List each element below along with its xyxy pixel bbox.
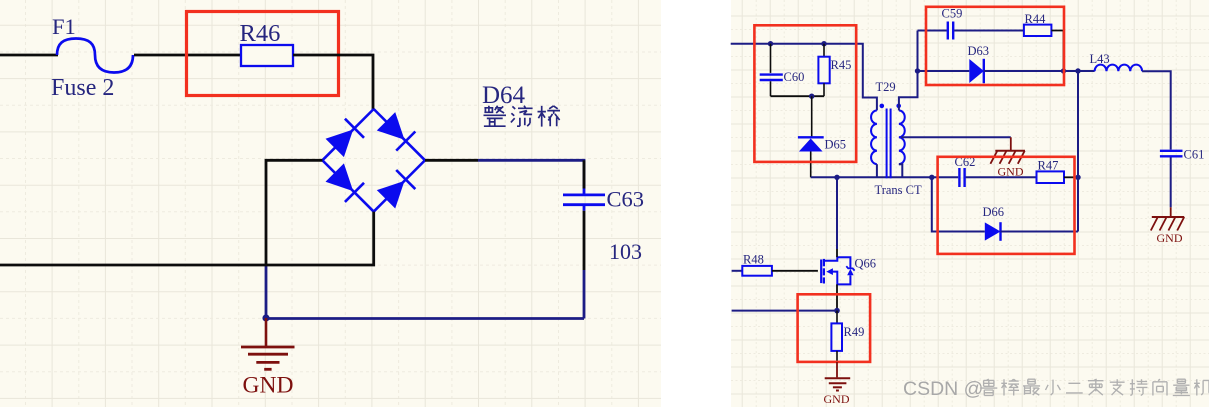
fuse F1 — [57, 39, 133, 73]
svg-text:T29: T29 — [876, 80, 896, 94]
junction node source R49 — [834, 308, 840, 314]
inductor L43 — [1095, 65, 1143, 72]
capacitor C59 — [947, 22, 949, 40]
wire node to D63 — [918, 70, 970, 72]
wire C60 bottom to R45 bottom — [771, 95, 825, 97]
wire source — [836, 284, 838, 310]
svg-text:C59: C59 — [942, 7, 963, 21]
wire secondary top pin to D63 node — [899, 31, 918, 111]
earth ground at center tap — [1010, 137, 1012, 151]
junction node secondary bottom — [929, 175, 934, 180]
highlight box around R49 — [798, 294, 871, 362]
wire D66 to output vertical — [1001, 231, 1079, 233]
capacitor C63 — [583, 189, 586, 195]
svg-text:Fuse 2: Fuse 2 — [51, 75, 114, 101]
diode D63 — [969, 59, 984, 83]
svg-text:R48: R48 — [743, 253, 764, 267]
wire output vertical — [1077, 71, 1079, 232]
capacitor C61 — [1160, 150, 1183, 152]
junction node R47 output — [1075, 175, 1080, 180]
svg-text:Q66: Q66 — [855, 257, 877, 271]
wire R44 to D63 output node — [1051, 31, 1063, 72]
wire left rail lower — [265, 265, 268, 318]
earth ground below C61 — [1170, 207, 1172, 217]
capacitor C60 — [770, 44, 772, 73]
wire fuse to R46 — [134, 54, 241, 57]
diode D65 — [811, 96, 813, 136]
junction node R44 join — [1061, 68, 1066, 73]
wire bottom output rail — [266, 317, 584, 320]
label rectifier chinese text — [484, 106, 507, 127]
highlight box around R46 — [187, 12, 339, 96]
transformer polarity dot primary — [880, 104, 885, 109]
wire gate input — [732, 270, 743, 272]
ground GND below R49 — [836, 362, 838, 377]
wire secondary bottom to C62 — [932, 176, 958, 178]
wire R48 to gate — [772, 270, 818, 272]
wire R46 to corner — [293, 55, 373, 110]
wire L43 to C61 — [1142, 71, 1171, 149]
svg-text:GND: GND — [243, 373, 294, 399]
wire to C63 corner — [478, 160, 584, 188]
transformer T29 primary winding — [871, 110, 877, 164]
svg-text:R45: R45 — [831, 58, 852, 72]
ground GND left panel — [265, 318, 268, 347]
bridge diode bottom-to-right — [377, 181, 405, 209]
transformer polarity dot secondary — [896, 104, 901, 109]
svg-text:D63: D63 — [968, 44, 990, 58]
junction node D65 top — [809, 94, 814, 99]
diode D66 — [985, 222, 1001, 240]
wire to C59 — [918, 30, 947, 32]
svg-text:GND: GND — [824, 392, 850, 406]
svg-text:CSDN @: CSDN @ — [903, 378, 983, 400]
resistor R47 — [1037, 171, 1065, 183]
svg-text:R46: R46 — [240, 20, 281, 47]
highlight box around C59 R44 D63 — [926, 7, 1064, 85]
wire primary bottom rail — [811, 176, 932, 178]
capacitor C62 — [958, 168, 960, 187]
wire secondary winding bottom pin — [899, 164, 902, 177]
wire C59 to R44 — [954, 30, 1024, 32]
resistor R45 — [823, 44, 825, 57]
transformer T29 secondary winding — [899, 110, 905, 164]
bridge rectifier D64 outline — [322, 109, 425, 212]
highlight box around C60 R45 D65 — [754, 25, 856, 162]
transformer T29 core — [886, 109, 888, 179]
resistor R46 — [241, 45, 293, 66]
svg-text:R44: R44 — [1025, 12, 1047, 26]
svg-text:C63: C63 — [607, 187, 645, 212]
wire D63 to L43 — [984, 70, 1095, 72]
wire source rail — [732, 310, 837, 312]
transistor Q66 — [820, 260, 822, 284]
wire bridge left vertex to left rail — [266, 160, 322, 265]
bridge diode top-to-right — [377, 112, 405, 140]
resistor R49 — [836, 311, 838, 324]
svg-text:F1: F1 — [52, 14, 76, 39]
resistor R44 — [1024, 25, 1052, 36]
svg-text:D66: D66 — [983, 205, 1005, 219]
wire top rail to transformer — [731, 44, 877, 111]
junction node R45 top — [821, 41, 826, 46]
wire secondary bottom to D66 — [932, 177, 985, 231]
svg-text:C61: C61 — [1184, 148, 1205, 162]
highlight box around C62 R47 D66 — [938, 157, 1075, 254]
wire R47 to output vertical — [1064, 176, 1078, 178]
svg-text:GND: GND — [1157, 231, 1183, 245]
junction node C60 top — [768, 41, 773, 46]
junction node D63 anode — [915, 68, 920, 73]
wire center tap to ground — [901, 136, 1011, 138]
svg-text:103: 103 — [609, 239, 642, 264]
junction node output branch — [1075, 68, 1080, 73]
resistor R48 — [742, 266, 772, 276]
wire primary winding bottom pin — [876, 164, 878, 177]
junction node drain — [834, 175, 839, 180]
svg-text:D65: D65 — [825, 138, 847, 152]
svg-text:R47: R47 — [1038, 159, 1059, 173]
svg-text:D64: D64 — [482, 82, 526, 109]
junction dot at GND node — [262, 314, 269, 321]
wire AC input top — [0, 54, 58, 57]
wire C63 to bottom rail — [583, 211, 586, 270]
svg-text:R49: R49 — [844, 325, 865, 339]
bridge diode left-to-top — [326, 130, 354, 158]
svg-text:C60: C60 — [784, 70, 805, 84]
wire drain — [836, 177, 838, 249]
wire bridge right vertex to C63 — [425, 159, 478, 162]
bridge diode left-to-bottom — [326, 163, 354, 191]
wire C61 to ground — [1170, 158, 1172, 208]
wire C62 to R47 — [966, 176, 1037, 178]
wire AC input bottom — [0, 212, 374, 265]
svg-text:Trans CT: Trans CT — [875, 183, 922, 197]
